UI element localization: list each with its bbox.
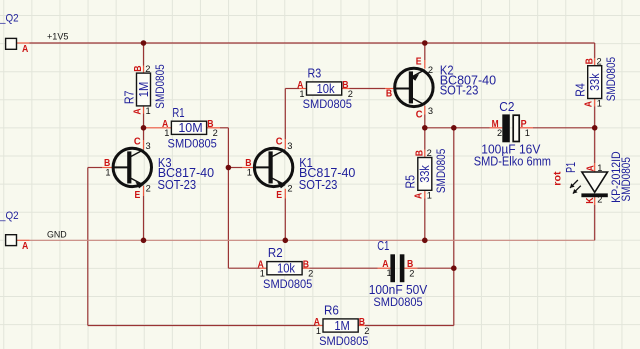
svg-text:B: B bbox=[386, 87, 393, 99]
svg-text:2: 2 bbox=[427, 148, 432, 158]
wire corner to R2 bbox=[228, 267, 260, 269]
svg-text:33k: 33k bbox=[587, 73, 602, 91]
wire R7 to node K3 collector bbox=[143, 114, 145, 128]
node K2 collector/R5 bbox=[422, 125, 428, 131]
svg-text:_Q2: _Q2 bbox=[0, 13, 19, 25]
resistor R3 10k bbox=[297, 66, 353, 112]
svg-text:P1: P1 bbox=[563, 162, 578, 173]
svg-text:3: 3 bbox=[146, 141, 151, 151]
svg-text:1M: 1M bbox=[334, 318, 350, 333]
wire down R1-B to R2-A column bbox=[227, 128, 229, 268]
wire corner to R3 bbox=[285, 88, 299, 90]
wire R4 pin 2 stub bbox=[594, 58, 596, 66]
wire bottom row to R6 bbox=[88, 325, 317, 327]
svg-text:1: 1 bbox=[597, 99, 602, 109]
svg-text:R5: R5 bbox=[403, 175, 418, 189]
pad _Q2 (+1V5) bbox=[0, 13, 68, 55]
capacitor C2 100uF bbox=[474, 99, 551, 169]
node K1 base bbox=[226, 165, 232, 171]
wire K3 emitter to GND bbox=[143, 196, 145, 240]
wire +1V5 branch to R7 bbox=[143, 43, 145, 66]
svg-text:1: 1 bbox=[247, 167, 252, 177]
svg-text:10M: 10M bbox=[178, 120, 202, 135]
wire R4 to node bbox=[594, 107, 596, 128]
svg-text:SMD0805: SMD0805 bbox=[604, 57, 618, 102]
node K2 collector/C1 column bbox=[451, 125, 457, 131]
wire GND pad pin stub bbox=[17, 239, 30, 241]
wire left column down to bottom row bbox=[87, 168, 89, 326]
svg-text:2: 2 bbox=[145, 64, 150, 74]
wire +1V5 down to R4 bbox=[594, 43, 596, 58]
svg-text:A: A bbox=[131, 108, 143, 115]
svg-text:E: E bbox=[135, 189, 141, 201]
svg-text:C1: C1 bbox=[377, 238, 389, 253]
svg-text:SMD0805: SMD0805 bbox=[319, 334, 369, 348]
wire C2 pin 2 stub bbox=[490, 127, 503, 129]
svg-text:SOT-23: SOT-23 bbox=[158, 177, 197, 192]
svg-text:SMD0805: SMD0805 bbox=[263, 277, 313, 291]
wire node to K3 collector bbox=[143, 128, 145, 140]
resistor R6 1M bbox=[314, 303, 370, 349]
svg-text:+1V5: +1V5 bbox=[47, 31, 69, 41]
svg-text:SMD0805: SMD0805 bbox=[303, 97, 353, 111]
svg-text:K: K bbox=[584, 197, 596, 204]
svg-text:A: A bbox=[585, 165, 597, 172]
svg-text:SOT-23: SOT-23 bbox=[299, 177, 338, 192]
svg-text:C: C bbox=[416, 108, 423, 120]
wire C1 pin 1 stub bbox=[378, 267, 391, 269]
wire R2 to C1 bbox=[310, 267, 378, 269]
svg-text:R4: R4 bbox=[573, 83, 588, 97]
wire C2 to LED column bbox=[533, 127, 595, 129]
svg-text:A: A bbox=[413, 192, 425, 199]
svg-text:2: 2 bbox=[597, 56, 602, 66]
svg-text:1: 1 bbox=[427, 191, 432, 201]
svg-text:SMD-Elko 6mm: SMD-Elko 6mm bbox=[474, 154, 551, 169]
svg-text:SMD0805: SMD0805 bbox=[373, 295, 423, 309]
wire R2 pin 2 stub bbox=[302, 267, 310, 269]
svg-text:SOT-23: SOT-23 bbox=[440, 83, 479, 98]
wire R2 pin 1 stub bbox=[260, 267, 268, 269]
svg-text:1: 1 bbox=[387, 268, 392, 278]
wire K2 emitter pin stub bbox=[424, 60, 426, 69]
wire R5 pin 2 stub bbox=[424, 150, 426, 158]
wire R1 pin 1 stub bbox=[144, 127, 172, 129]
svg-text:B: B bbox=[132, 65, 144, 72]
node +1V5/R7 bbox=[141, 40, 147, 46]
transistor K3 BC817-40 bbox=[104, 136, 214, 201]
node GND/K1 emitter bbox=[283, 238, 289, 244]
svg-text:SMD0805: SMD0805 bbox=[619, 157, 633, 202]
svg-text:10k: 10k bbox=[277, 261, 296, 276]
svg-text:E: E bbox=[276, 189, 282, 201]
svg-text:R2: R2 bbox=[268, 245, 283, 260]
svg-text:C: C bbox=[134, 136, 141, 148]
wire K2 base pin stub bbox=[385, 88, 395, 90]
svg-text:E: E bbox=[416, 55, 422, 67]
node GND/R5 bbox=[422, 238, 428, 244]
capacitor C1 100nF bbox=[369, 238, 428, 309]
svg-text:10k: 10k bbox=[317, 81, 336, 96]
wire R3 to K2 base bbox=[350, 88, 386, 90]
svg-text:A: A bbox=[22, 43, 29, 55]
node C1/R6 bbox=[451, 265, 457, 271]
wire node row to C2 bbox=[425, 127, 490, 129]
svg-text:1: 1 bbox=[597, 163, 602, 173]
svg-text:R7: R7 bbox=[121, 91, 136, 105]
wire K2 collector pin stub bbox=[424, 106, 426, 115]
wire C1 to node bbox=[417, 267, 454, 269]
node K3 collector/R7/R1 bbox=[141, 125, 147, 131]
wire +1V5 branch to K2 emitter bbox=[424, 43, 426, 60]
svg-text:2: 2 bbox=[287, 184, 292, 194]
wire K3 emitter pin stub bbox=[143, 186, 145, 196]
svg-text:2: 2 bbox=[428, 65, 433, 75]
svg-text:B: B bbox=[583, 58, 595, 65]
svg-text:rot: rot bbox=[552, 171, 564, 186]
wire node down to R5 bbox=[424, 128, 426, 150]
svg-text:2: 2 bbox=[409, 269, 414, 279]
node GND/K3 emitter bbox=[141, 238, 147, 244]
wire LED anode pin stub bbox=[594, 163, 596, 172]
wire R7 pin 2 stub bbox=[143, 66, 145, 74]
wire K1 base pin stub bbox=[242, 167, 253, 169]
wire K3 collector pin stub bbox=[143, 140, 145, 150]
wire +1V5 rail bbox=[30, 42, 595, 44]
wire K1 emitter pin stub bbox=[284, 189, 286, 199]
svg-text:R6: R6 bbox=[324, 303, 339, 318]
svg-text:2: 2 bbox=[597, 195, 602, 205]
wire R7 pin 1 stub bbox=[143, 106, 145, 114]
wire GND rail bbox=[30, 239, 595, 241]
resistor R7 1M bbox=[121, 64, 167, 116]
svg-text:_Q2: _Q2 bbox=[0, 210, 19, 222]
resistor R5 33k bbox=[403, 148, 449, 200]
svg-text:1: 1 bbox=[525, 128, 530, 138]
wire R6 to corner bbox=[365, 325, 454, 327]
svg-text:C: C bbox=[276, 136, 283, 148]
node +1V5/K2 emitter bbox=[422, 40, 428, 46]
svg-text:2: 2 bbox=[146, 184, 151, 194]
svg-text:33k: 33k bbox=[417, 165, 432, 183]
svg-text:A: A bbox=[22, 240, 29, 252]
transistor K2 BC807-40 bbox=[386, 55, 496, 120]
wire K1 collector from R3 corner bbox=[284, 89, 286, 140]
svg-text:2: 2 bbox=[497, 128, 502, 138]
resistor R4 33k bbox=[573, 56, 619, 108]
svg-text:SMD0805: SMD0805 bbox=[434, 148, 448, 193]
resistor R2 10k bbox=[258, 245, 314, 291]
wire node down to LED bbox=[594, 128, 596, 163]
wire R3 pin 2 stub bbox=[341, 88, 349, 90]
LED P1 KP-2012ID bbox=[552, 151, 633, 204]
svg-text:SMD0805: SMD0805 bbox=[168, 136, 218, 150]
wire K1 emitter to GND bbox=[284, 199, 286, 241]
wire R6 pin 2 stub bbox=[357, 325, 365, 327]
svg-text:A: A bbox=[583, 101, 595, 108]
wire +1V5 pad pin stub bbox=[17, 42, 30, 44]
svg-text:C2: C2 bbox=[499, 99, 514, 114]
svg-text:1: 1 bbox=[105, 167, 110, 177]
wire K1 collector pin stub bbox=[284, 139, 286, 149]
svg-text:SMD0805: SMD0805 bbox=[153, 64, 167, 109]
node R4/C2/LED bbox=[592, 125, 598, 131]
svg-text:1M: 1M bbox=[136, 82, 151, 98]
svg-text:B: B bbox=[413, 150, 425, 157]
svg-text:3: 3 bbox=[428, 106, 433, 116]
wire LED cathode to GND row bbox=[594, 205, 596, 240]
svg-text:3: 3 bbox=[287, 141, 292, 151]
wire K3 base pin stub bbox=[102, 167, 113, 169]
wire R1 pin 2 stub bbox=[207, 127, 220, 129]
wire C2 pin 1 stub bbox=[520, 127, 533, 129]
wire R4 pin 1 stub bbox=[594, 99, 596, 107]
svg-text:GND: GND bbox=[47, 229, 67, 239]
wire R6 pin 1 stub bbox=[317, 325, 325, 327]
transistor K1 BC817-40 bbox=[245, 136, 355, 201]
resistor R1 10M bbox=[162, 105, 218, 151]
wire K2 collector to node bbox=[424, 115, 426, 128]
wire R5 to GND bbox=[424, 199, 426, 241]
wire K3 base from corner bbox=[88, 167, 102, 169]
pad _Q2 (GND) bbox=[0, 210, 67, 252]
svg-text:1: 1 bbox=[146, 106, 151, 116]
wire C1 pin 2 stub bbox=[404, 267, 417, 269]
wire column C1 node down to bottom row bbox=[453, 128, 455, 326]
wire branch to K1 base bbox=[228, 167, 242, 169]
wire R1 to corner bbox=[220, 127, 228, 129]
wire R5 pin 1 stub bbox=[424, 190, 426, 198]
wire LED cathode pin stub bbox=[594, 197, 596, 205]
svg-text:R1: R1 bbox=[172, 105, 184, 120]
svg-text:R3: R3 bbox=[308, 66, 322, 81]
wire R3 pin 1 stub bbox=[299, 88, 307, 90]
